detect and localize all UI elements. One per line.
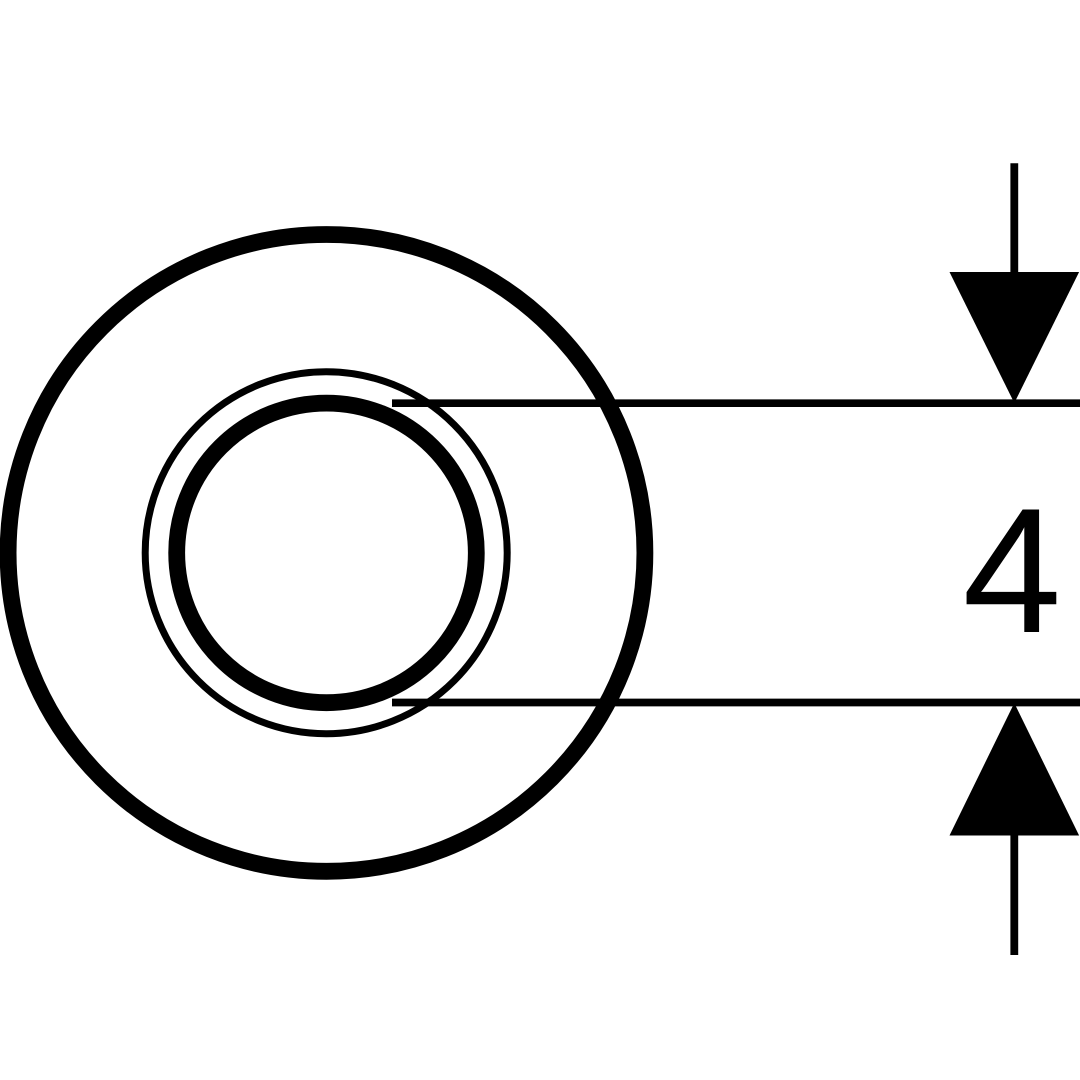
svg-text:4: 4	[963, 471, 1062, 670]
